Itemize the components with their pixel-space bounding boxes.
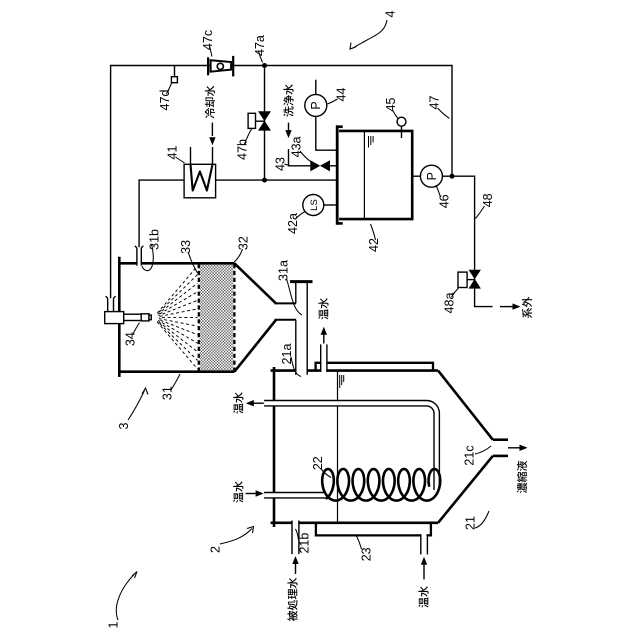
svg-text:1: 1 bbox=[107, 621, 121, 628]
tank 42 lid bbox=[336, 125, 339, 225]
svg-text:P: P bbox=[425, 172, 439, 180]
arrow 2 bbox=[220, 529, 252, 545]
leader 33 bbox=[189, 253, 198, 273]
leader 21b bbox=[296, 529, 299, 540]
hot water arrow into coil bbox=[246, 493, 256, 495]
ejector 47c bbox=[207, 57, 209, 75]
svg-text:34: 34 bbox=[124, 332, 138, 346]
nozzle feed pipe bbox=[106, 296, 116, 312]
jacket plate right bbox=[316, 363, 433, 371]
spray fan bbox=[157, 266, 197, 369]
svg-text:31a: 31a bbox=[276, 260, 290, 281]
leader 31b bbox=[142, 244, 153, 271]
leader 21c bbox=[475, 446, 491, 454]
arrow 4 bbox=[353, 20, 388, 49]
sensor 47d bbox=[174, 66, 176, 77]
valve 43a bbox=[310, 160, 320, 171]
svg-text:23: 23 bbox=[359, 547, 373, 561]
pump 44 bbox=[316, 116, 337, 150]
arrow 1 bbox=[116, 575, 134, 621]
leader 22 bbox=[321, 469, 331, 478]
condenser coil W bbox=[191, 164, 213, 190]
leader 44 bbox=[328, 99, 338, 104]
node pump junction bbox=[450, 174, 455, 179]
svg-text:31b: 31b bbox=[147, 229, 161, 250]
leader 45 bbox=[393, 110, 399, 119]
svg-text:32: 32 bbox=[237, 236, 251, 250]
hot water inlet to jacket bbox=[421, 533, 426, 554]
node liquid level tank 42 bbox=[363, 131, 365, 219]
leader 21a bbox=[291, 357, 301, 377]
leader 42 bbox=[371, 224, 376, 240]
vapor pipe 21a/31a bbox=[296, 281, 306, 375]
leader 41 bbox=[176, 157, 185, 163]
vessel 31 shell bbox=[119, 257, 276, 377]
svg-text:47c: 47c bbox=[201, 30, 215, 50]
leader 23 bbox=[357, 536, 362, 549]
condenser 41 box bbox=[184, 164, 216, 198]
wire condensate line to tank bbox=[216, 179, 337, 181]
node junction 47a bbox=[262, 63, 267, 68]
concentrate outlet arrow 21c bbox=[508, 447, 520, 449]
svg-text:45: 45 bbox=[384, 98, 398, 112]
svg-text:3: 3 bbox=[117, 422, 131, 429]
heating coil 22 bbox=[264, 403, 437, 490]
pipe end flange bbox=[290, 280, 313, 283]
svg-text:47b: 47b bbox=[236, 139, 250, 160]
cooling stubs bbox=[190, 147, 192, 164]
tank 42 body bbox=[339, 131, 412, 219]
level switch 42a bbox=[324, 204, 337, 206]
leader 34 bbox=[133, 323, 140, 335]
valve 48a bbox=[469, 279, 481, 289]
wire branch line 43-47a bbox=[264, 66, 266, 181]
svg-text:21c: 21c bbox=[463, 445, 477, 465]
wire vapor line to condenser bbox=[139, 180, 184, 247]
svg-text:41: 41 bbox=[166, 146, 180, 160]
vessel 21 shell bbox=[271, 367, 509, 527]
pump 46 bbox=[412, 175, 420, 177]
svg-text:43a: 43a bbox=[290, 136, 304, 157]
svg-text:LS: LS bbox=[309, 199, 320, 211]
svg-text:21b: 21b bbox=[297, 533, 311, 554]
svg-text:47a: 47a bbox=[253, 35, 267, 56]
mist eliminator 33 bbox=[200, 265, 234, 371]
hot water outlet stub at right wall bbox=[321, 344, 326, 373]
leader 47a bbox=[259, 51, 263, 63]
jacket plate 23 left bbox=[316, 523, 431, 536]
spray nozzle 34 bbox=[105, 312, 124, 324]
leader 47c bbox=[210, 46, 213, 57]
leader 42a bbox=[296, 212, 306, 220]
washing water arrow bbox=[288, 123, 290, 133]
leader 48a bbox=[452, 288, 459, 297]
water surface marks vessel 21 bbox=[340, 375, 344, 388]
leader 47 bbox=[438, 108, 450, 119]
svg-text:48a: 48a bbox=[443, 293, 457, 314]
svg-text:2: 2 bbox=[209, 546, 223, 553]
hot water arrow out of coil bbox=[253, 402, 263, 404]
svg-text:22: 22 bbox=[311, 456, 325, 470]
wire washing line 43 bbox=[289, 149, 311, 166]
leader 31 bbox=[171, 374, 180, 390]
svg-text:33: 33 bbox=[179, 240, 193, 254]
node junction bbox=[262, 178, 267, 183]
node liquid level line, vessel 21 bbox=[337, 371, 339, 523]
leader 43a bbox=[300, 151, 311, 162]
svg-text:47: 47 bbox=[428, 96, 442, 110]
svg-text:4: 4 bbox=[384, 10, 398, 17]
svg-text:47d: 47d bbox=[158, 90, 172, 111]
vapor stub 31b bbox=[137, 248, 141, 266]
leader 43 bbox=[285, 164, 291, 166]
cooling water arrow bbox=[211, 123, 213, 136]
raw water arrow bbox=[295, 563, 297, 574]
leader 47b bbox=[245, 129, 252, 144]
svg-text:46: 46 bbox=[438, 194, 452, 208]
leader 48 bbox=[476, 206, 485, 219]
svg-text:42: 42 bbox=[367, 238, 381, 252]
sensor 45 bbox=[401, 126, 403, 138]
leader 46 bbox=[436, 185, 441, 197]
wire main loop bbox=[111, 66, 452, 299]
cone outlet duct bbox=[275, 303, 297, 319]
svg-text:P: P bbox=[309, 101, 323, 109]
valve 47b bbox=[258, 121, 271, 131]
leader 21 bbox=[475, 511, 489, 528]
leader 31a bbox=[287, 279, 303, 315]
blowdown arrow keigai bbox=[500, 306, 513, 308]
svg-text:48: 48 bbox=[481, 193, 495, 207]
inlet pipe 21b bbox=[293, 519, 299, 554]
leader 47d bbox=[167, 84, 172, 95]
wire line 48 bbox=[452, 176, 493, 306]
arrow 3 bbox=[128, 391, 145, 421]
leader 32 bbox=[233, 249, 243, 264]
